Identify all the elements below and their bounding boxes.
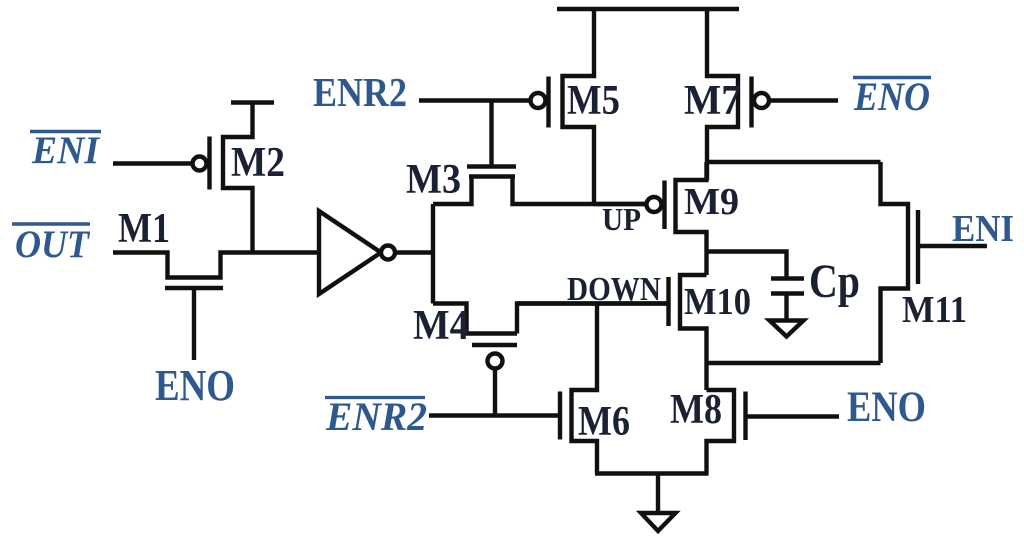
svg-text:M7: M7 <box>684 78 741 124</box>
svg-text:DOWN: DOWN <box>567 271 661 308</box>
svg-text:ENO: ENO <box>853 74 930 119</box>
svg-text:M10: M10 <box>684 281 751 323</box>
svg-text:ENI: ENI <box>952 208 1014 250</box>
svg-text:M4: M4 <box>413 303 469 349</box>
svg-text:ENI: ENI <box>31 129 101 172</box>
svg-text:Cp: Cp <box>809 255 860 308</box>
svg-text:M5: M5 <box>567 78 620 124</box>
svg-text:M3: M3 <box>406 157 461 203</box>
svg-text:M8: M8 <box>670 387 722 433</box>
svg-text:UP: UP <box>602 201 641 237</box>
svg-text:M1: M1 <box>118 206 170 252</box>
svg-text:ENO: ENO <box>155 361 235 410</box>
svg-text:M11: M11 <box>902 289 967 331</box>
svg-text:M2: M2 <box>231 140 285 186</box>
svg-text:M9: M9 <box>684 181 739 223</box>
svg-text:OUT: OUT <box>15 223 91 266</box>
svg-text:M6: M6 <box>578 399 630 445</box>
svg-text:ENR2: ENR2 <box>325 394 427 439</box>
svg-text:ENR2: ENR2 <box>313 69 407 115</box>
svg-text:ENO: ENO <box>847 384 926 431</box>
